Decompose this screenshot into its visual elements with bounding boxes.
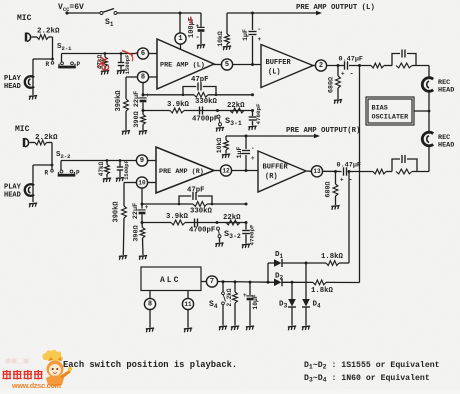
pin 10 bbox=[124, 177, 156, 188]
switch S2-1 bbox=[51, 62, 76, 69]
label 1.8kOhm (upper) bbox=[321, 253, 344, 261]
label PRE AMP OUTPUT (R) bbox=[286, 127, 360, 135]
label R contact (S2-1) bbox=[46, 61, 50, 68]
caption D3-D4 note bbox=[304, 373, 430, 384]
pin 12 bbox=[214, 165, 258, 176]
arrow R output bbox=[314, 134, 320, 138]
svg-text:0.47μF: 0.47μF bbox=[339, 56, 363, 64]
capacitor 22uF (R) bbox=[138, 204, 148, 223]
label 390kOhm (R) bbox=[113, 201, 121, 223]
svg-text:1μF: 1μF bbox=[242, 29, 249, 41]
svg-text:R: R bbox=[45, 170, 49, 177]
parallel RC to rec head (L) bbox=[392, 50, 429, 68]
resistor 2.2kOhm (L mic) bbox=[32, 35, 53, 40]
svg-text:R: R bbox=[46, 61, 50, 68]
wire R record line bbox=[412, 171, 429, 173]
label S3-2 bbox=[224, 229, 241, 240]
wire L vertical upper bbox=[252, 36, 254, 65]
block BIAS OSCILATER bbox=[366, 97, 414, 125]
ground for 680 R bbox=[331, 206, 340, 210]
wire L fb wire1 bbox=[143, 93, 254, 96]
svg-text:1.8kΩ: 1.8kΩ bbox=[311, 287, 334, 295]
svg-text:MIC: MIC bbox=[17, 14, 32, 23]
wire mic R down bbox=[51, 143, 53, 166]
ground for S3-1 bbox=[216, 127, 225, 131]
ground for D3 bbox=[288, 326, 297, 330]
svg-text:13: 13 bbox=[313, 168, 321, 175]
diode D4 bbox=[302, 263, 310, 326]
svg-text:4700pF: 4700pF bbox=[249, 224, 256, 245]
resistor 47kOhm (R input) bbox=[105, 159, 110, 177]
pin 7 bbox=[201, 276, 268, 287]
svg-text:D1: D1 bbox=[275, 251, 284, 260]
capacitor 1500pF (R input) bbox=[117, 159, 123, 177]
label 680Ohm (R) bbox=[325, 181, 333, 197]
svg-text:HEAD: HEAD bbox=[4, 83, 21, 91]
label PRE AMP OUTPUT (L) bbox=[296, 4, 375, 12]
wire pin10 down bbox=[141, 188, 144, 208]
svg-text:680Ω: 680Ω bbox=[328, 77, 336, 93]
capacitor 4700pF (R shunt) bbox=[242, 223, 250, 244]
label D1 bbox=[275, 251, 284, 260]
diode D3 bbox=[288, 282, 296, 325]
label 4700pF (L shunt) bbox=[255, 103, 262, 124]
node pin10 lower junction bbox=[141, 221, 144, 224]
wire R fb wire1 bbox=[142, 203, 248, 206]
ground for 1500pF L bbox=[117, 70, 126, 74]
label 47kOhm (R input) bbox=[98, 161, 105, 176]
resistor 680Ohm (L) bbox=[336, 66, 341, 100]
diode D1 bbox=[268, 259, 306, 267]
svg-text:P: P bbox=[77, 61, 81, 68]
svg-text:-: - bbox=[350, 71, 354, 79]
label 330kOhm (L) bbox=[195, 98, 218, 106]
resistor 22kOhm (L) bbox=[230, 108, 244, 113]
svg-text:S2-2: S2-2 bbox=[56, 151, 70, 160]
wire S2-2 to pin 9 bbox=[61, 160, 136, 162]
label 2.2kOhm (ALC) bbox=[226, 288, 233, 306]
svg-text:HEAD: HEAD bbox=[438, 87, 454, 95]
label P contact (S2-1) bbox=[77, 61, 81, 68]
pin 8 bbox=[126, 71, 157, 82]
svg-text:10kΩ: 10kΩ bbox=[216, 138, 223, 154]
svg-text:330kΩ: 330kΩ bbox=[190, 208, 213, 216]
capacitor 1500pF (L input) bbox=[118, 52, 124, 69]
svg-text:-: - bbox=[349, 177, 353, 185]
capacitor 22uF (L) bbox=[139, 92, 149, 111]
node junction after cap R bbox=[348, 170, 351, 173]
label D4 bbox=[313, 301, 322, 310]
ground for 2.2k ALC bbox=[231, 326, 240, 330]
svg-text:390Ω: 390Ω bbox=[133, 225, 141, 241]
capacitor 1uF (R) bbox=[242, 136, 255, 162]
resistor 10kOhm (R out) bbox=[224, 136, 229, 154]
label 0.47uF (R) bbox=[337, 162, 361, 170]
svg-text:3.9kΩ: 3.9kΩ bbox=[167, 101, 190, 109]
resistor 1.8kOhm (lower) bbox=[313, 280, 360, 285]
wire riser D1 bbox=[267, 263, 270, 284]
wire bias to heads bbox=[414, 110, 430, 113]
svg-text:7: 7 bbox=[210, 278, 214, 286]
label 3.9kOhm (R) bbox=[166, 213, 189, 221]
svg-text:BIAS: BIAS bbox=[372, 105, 388, 113]
ground for S4 bbox=[219, 326, 228, 330]
node junction pin5-vertical bbox=[251, 63, 254, 66]
svg-text:BUFFER: BUFFER bbox=[266, 59, 292, 67]
svg-text:4700pF: 4700pF bbox=[192, 116, 218, 124]
label 1500pF (R input) bbox=[123, 160, 130, 180]
resistor to rec head (L) bbox=[371, 63, 392, 68]
svg-text:HEAD: HEAD bbox=[438, 142, 454, 150]
ground for 4700pF R bbox=[242, 244, 251, 248]
wire rec head vertical top bbox=[428, 66, 430, 80]
svg-text:1μF: 1μF bbox=[236, 147, 243, 159]
buffer amp BUFFER (R) bbox=[258, 151, 306, 192]
label 390Ohm (R) bbox=[133, 225, 141, 241]
pin 8 (ALC) bbox=[144, 291, 155, 328]
pin 11 (ALC) bbox=[182, 291, 193, 328]
svg-text:HEAD: HEAD bbox=[4, 192, 21, 200]
capacitor 4700pF (L series) bbox=[200, 107, 203, 115]
svg-text:BUFFER: BUFFER bbox=[263, 164, 289, 172]
wire to pin 1 bbox=[179, 13, 181, 33]
svg-text:330kΩ: 330kΩ bbox=[195, 98, 218, 106]
svg-text:OSCILATER: OSCILATER bbox=[372, 114, 410, 122]
label 10kOhm (R out) bbox=[216, 138, 223, 154]
svg-text:8: 8 bbox=[148, 300, 152, 308]
label S4 bbox=[209, 300, 218, 310]
label 22uF (L) bbox=[133, 91, 141, 107]
node D2-D3 junction bbox=[291, 281, 294, 284]
pin 13 bbox=[306, 166, 342, 177]
svg-text:S2-1: S2-1 bbox=[57, 43, 72, 52]
label P contact (S2-2) bbox=[76, 170, 80, 177]
pin 6 bbox=[137, 48, 157, 59]
svg-text:PLAY: PLAY bbox=[4, 75, 22, 83]
svg-text:Each switch position is playba: Each switch position is playback. bbox=[63, 360, 237, 370]
resistor 390kOhm (L) bbox=[124, 77, 129, 130]
wire pin8 down bbox=[142, 83, 145, 97]
resistor 2.2kOhm (R mic) bbox=[30, 140, 53, 145]
label 22uF (R) bbox=[132, 203, 140, 219]
svg-text:+: + bbox=[145, 204, 149, 211]
pin 5 bbox=[214, 59, 261, 70]
svg-text:P: P bbox=[76, 170, 80, 177]
pin 9 bbox=[136, 155, 156, 166]
svg-text:0.47μF: 0.47μF bbox=[337, 162, 361, 170]
capacitor 0.47uF (R) bbox=[340, 167, 353, 184]
svg-text:11: 11 bbox=[184, 301, 192, 308]
svg-text:10kΩ: 10kΩ bbox=[217, 31, 224, 47]
ground for D4 bbox=[302, 326, 311, 330]
resistor 390Ohm (L) bbox=[141, 111, 146, 131]
capacitor 4700pF (L shunt) bbox=[249, 111, 257, 126]
svg-text:10: 10 bbox=[138, 179, 146, 186]
resistor 680Ohm (R) bbox=[333, 172, 338, 206]
capacitor 10uF (ALC) bbox=[243, 281, 254, 326]
arrow L output bbox=[316, 11, 322, 15]
label D3 bbox=[279, 301, 288, 310]
svg-text:+: + bbox=[258, 36, 262, 43]
svg-text:VCC=6V: VCC=6V bbox=[58, 3, 84, 13]
label 4700pF (R shunt) bbox=[249, 224, 256, 245]
ground for ALC pin 11 bbox=[184, 328, 193, 332]
op-amp PRE AMP (L) pin 1 bbox=[175, 33, 186, 49]
svg-text:22μF: 22μF bbox=[133, 91, 141, 107]
wire R vertical upper bbox=[245, 155, 247, 171]
switch S2-2 bbox=[51, 170, 76, 177]
resistor 47kOhm (L input) bbox=[103, 52, 108, 70]
svg-text:1: 1 bbox=[178, 35, 182, 43]
node junction after cap L bbox=[349, 64, 371, 67]
svg-text:(R): (R) bbox=[265, 173, 278, 181]
label 47pF (R) bbox=[187, 187, 205, 195]
wire play head R to switch bbox=[33, 164, 53, 169]
svg-text:680Ω: 680Ω bbox=[325, 181, 333, 197]
svg-text:12: 12 bbox=[222, 167, 230, 174]
diode D2 bbox=[268, 278, 313, 286]
ground for S3-2 bbox=[215, 243, 224, 247]
label 47kOhm (L input) bbox=[97, 54, 104, 69]
label PLAY HEAD (R) bbox=[4, 184, 22, 200]
op-amp PRE AMP (L) bbox=[157, 39, 214, 89]
svg-text:PRE AMP OUTPUT (L): PRE AMP OUTPUT (L) bbox=[296, 4, 375, 12]
svg-text:1500pF: 1500pF bbox=[124, 55, 131, 75]
svg-text:■■□■: ■■□■ bbox=[5, 356, 29, 367]
ground for 10uF bbox=[246, 326, 255, 330]
label 1uF (L) bbox=[242, 29, 249, 41]
label 10uF (ALC) bbox=[252, 294, 259, 309]
label 22kOhm (L) bbox=[227, 102, 245, 110]
svg-text:9: 9 bbox=[140, 157, 144, 165]
wire S2-1 common up bbox=[61, 54, 63, 63]
label 22kOhm (R) bbox=[223, 214, 241, 222]
capacitor 0.47uF (L) bbox=[341, 61, 354, 78]
node Vcc terminal bbox=[65, 11, 68, 14]
svg-text:390kΩ: 390kΩ bbox=[115, 90, 123, 112]
capacitor 47pF (L) bbox=[182, 83, 218, 97]
wire Vcc rail left bbox=[67, 12, 100, 14]
caption switch note bbox=[63, 360, 237, 370]
svg-text:47kΩ: 47kΩ bbox=[98, 161, 105, 176]
node D1-D4 junction bbox=[305, 262, 308, 265]
resistor 330kOhm (R) bbox=[193, 202, 207, 207]
node pin8 lower junction bbox=[142, 109, 145, 112]
ground for 4700pF L bbox=[248, 126, 257, 130]
svg-text:PRE AMP (R): PRE AMP (R) bbox=[159, 168, 204, 176]
capacitor 1uF (L) bbox=[249, 13, 262, 43]
label 0.47uF (L) bbox=[339, 56, 363, 64]
svg-text:(L): (L) bbox=[268, 69, 281, 77]
ground for 390k R bbox=[119, 256, 128, 260]
svg-text:6: 6 bbox=[141, 50, 145, 58]
microphone MIC (R) bbox=[24, 138, 29, 147]
resistor 1.8kOhm (upper) bbox=[306, 261, 349, 266]
ground for 10k R bbox=[222, 154, 231, 158]
label 1500pF (L input) bbox=[124, 55, 131, 75]
op-amp PRE AMP (R) bbox=[156, 147, 214, 193]
wire L output line bbox=[227, 12, 317, 15]
wire S2-2 common up bbox=[60, 161, 62, 171]
watermark dzsc logo bbox=[3, 350, 73, 390]
resistor 390Ohm (R) bbox=[140, 223, 145, 256]
ground for ALC pin 8 bbox=[146, 328, 155, 332]
label MIC (R) bbox=[15, 125, 30, 134]
label 390Ohm (L) bbox=[133, 111, 141, 127]
resistor 10kOhm (L out) bbox=[225, 13, 230, 46]
svg-text:+: + bbox=[196, 23, 200, 30]
wire S2-1 to pin 6 bbox=[62, 53, 138, 55]
label R contact (S2-2) bbox=[45, 170, 49, 177]
ground for 47k R bbox=[103, 178, 112, 182]
label 390kOhm (L) bbox=[115, 90, 123, 112]
label 4700pF (L series) bbox=[192, 116, 218, 124]
play head (R) bbox=[25, 165, 34, 202]
label REC HEAD 1 bbox=[438, 79, 454, 95]
ground for play head R bbox=[29, 203, 38, 207]
node junction 680 R bbox=[334, 170, 337, 173]
label 10kOhm (L out) bbox=[217, 31, 224, 47]
svg-text:22kΩ: 22kΩ bbox=[223, 214, 241, 222]
svg-text:22μF: 22μF bbox=[132, 203, 140, 219]
wire R vertical long bbox=[348, 172, 350, 264]
capacitor 100uF bbox=[196, 13, 205, 44]
capacitor 4700pF (R series) bbox=[195, 219, 198, 227]
ground for play head L bbox=[29, 96, 38, 100]
svg-text:+: + bbox=[146, 92, 150, 99]
svg-text:-: - bbox=[258, 26, 262, 33]
label 330kOhm (R) bbox=[190, 208, 213, 216]
buffer amp BUFFER (L) bbox=[261, 45, 313, 88]
svg-text:8: 8 bbox=[141, 73, 145, 81]
label MIC (L) bbox=[17, 14, 32, 23]
switch S3-2 bbox=[216, 221, 222, 242]
label 2.2kOhm (L mic) bbox=[37, 28, 60, 36]
wire L fb wire2 bbox=[143, 109, 254, 112]
resistor 3.9kOhm (R) bbox=[171, 220, 185, 225]
svg-text:+: + bbox=[340, 177, 344, 184]
resistor 3.9kOhm (L) bbox=[170, 108, 184, 113]
label 680Ohm (L) bbox=[328, 77, 336, 93]
svg-text:4700pF: 4700pF bbox=[189, 227, 215, 235]
node Vcc junction bbox=[179, 12, 182, 15]
svg-text:2: 2 bbox=[319, 62, 323, 70]
rec head 1 bbox=[422, 78, 433, 111]
rec head 2 bbox=[422, 111, 433, 172]
svg-text:D2: D2 bbox=[275, 273, 284, 282]
annotation red scribble on L input bbox=[97, 51, 138, 71]
svg-text:3.9kΩ: 3.9kΩ bbox=[166, 213, 189, 221]
ground for 47k L bbox=[101, 71, 110, 75]
label 4700pF (R series) bbox=[189, 227, 215, 235]
svg-text:1.8kΩ: 1.8kΩ bbox=[321, 253, 344, 261]
wire R fb wire2 bbox=[142, 221, 248, 224]
svg-text:4700pF: 4700pF bbox=[255, 103, 262, 124]
svg-text:PRE AMP OUTPUT(R): PRE AMP OUTPUT(R) bbox=[286, 127, 360, 135]
svg-text:D3: D3 bbox=[279, 301, 288, 310]
capacitor 47pF (R) bbox=[178, 192, 214, 205]
parallel RC to rec head (R) bbox=[386, 155, 417, 174]
wire R output line bbox=[226, 135, 315, 138]
node VCC label bbox=[58, 3, 84, 13]
label 47pF (L) bbox=[191, 76, 209, 84]
label 3.9kOhm (L) bbox=[167, 101, 190, 109]
svg-text:+: + bbox=[243, 292, 247, 299]
ground for 390 L bbox=[139, 131, 148, 135]
label S3-1 bbox=[225, 116, 242, 127]
svg-text:10μF: 10μF bbox=[252, 294, 259, 309]
svg-text:PRE AMP (L): PRE AMP (L) bbox=[160, 62, 205, 70]
label S2-2 bbox=[56, 151, 70, 160]
block ALC bbox=[141, 267, 201, 291]
switch S1 bbox=[100, 9, 117, 15]
ground for 390 R bbox=[139, 256, 148, 260]
label REC HEAD 2 bbox=[438, 134, 454, 150]
wire mic L down bbox=[52, 37, 54, 59]
resistor 2.2kOhm (ALC) bbox=[233, 280, 238, 325]
caption D1-D2 note bbox=[304, 360, 440, 371]
node junction 680 L bbox=[337, 64, 340, 67]
wire L vertical long bbox=[359, 66, 361, 283]
svg-text:390Ω: 390Ω bbox=[133, 111, 141, 127]
pin 2 bbox=[313, 60, 344, 71]
ground for 10k L bbox=[223, 46, 232, 50]
svg-text:PLAY: PLAY bbox=[4, 184, 22, 192]
svg-text:ALC: ALC bbox=[160, 276, 180, 285]
switch S4 bbox=[222, 280, 226, 325]
ground for 680 L bbox=[334, 100, 343, 104]
svg-text:-: - bbox=[196, 34, 200, 42]
label 100uF bbox=[188, 17, 196, 38]
node junction pin12-vertical bbox=[245, 169, 248, 172]
resistor 390kOhm (R) bbox=[122, 183, 127, 256]
svg-text:+: + bbox=[341, 71, 345, 78]
label S2-1 bbox=[57, 43, 72, 52]
label S1 bbox=[105, 18, 114, 28]
svg-text:5: 5 bbox=[225, 61, 229, 69]
wire Vcc rail right bbox=[117, 12, 201, 14]
wire play head L to switch bbox=[33, 58, 54, 61]
label 1.8kOhm (lower) bbox=[311, 287, 334, 295]
microphone MIC (L) bbox=[26, 33, 31, 42]
resistor 330kOhm (L) bbox=[194, 92, 208, 97]
label PLAY HEAD (L) bbox=[4, 75, 22, 91]
label 2.2kOhm (R mic) bbox=[35, 134, 58, 142]
svg-text:-: - bbox=[251, 145, 255, 152]
label D2 bbox=[275, 273, 284, 282]
svg-text:2.2kΩ: 2.2kΩ bbox=[226, 288, 233, 306]
svg-text:22kΩ: 22kΩ bbox=[227, 102, 245, 110]
svg-text:390kΩ: 390kΩ bbox=[113, 201, 121, 223]
label 1uF (R) bbox=[236, 147, 243, 159]
annotation red mark on 100uF bbox=[189, 17, 192, 26]
resistor to rec head (R) bbox=[349, 169, 386, 174]
svg-text:47pF: 47pF bbox=[187, 187, 205, 195]
switch S3-1 bbox=[216, 109, 222, 127]
svg-text:1500pF: 1500pF bbox=[123, 160, 130, 180]
ground for 1500pF R bbox=[116, 178, 125, 182]
play head (L) bbox=[25, 59, 34, 95]
svg-text:D4: D4 bbox=[313, 301, 322, 310]
svg-text:+: + bbox=[251, 155, 255, 162]
ground for 390k L bbox=[122, 131, 131, 135]
svg-text:47pF: 47pF bbox=[191, 76, 209, 84]
ground for 100uF bbox=[197, 45, 206, 49]
svg-text:www.dzsc.com: www.dzsc.com bbox=[11, 381, 61, 389]
resistor 22kOhm (R) bbox=[226, 220, 240, 225]
svg-text:MIC: MIC bbox=[15, 125, 30, 134]
